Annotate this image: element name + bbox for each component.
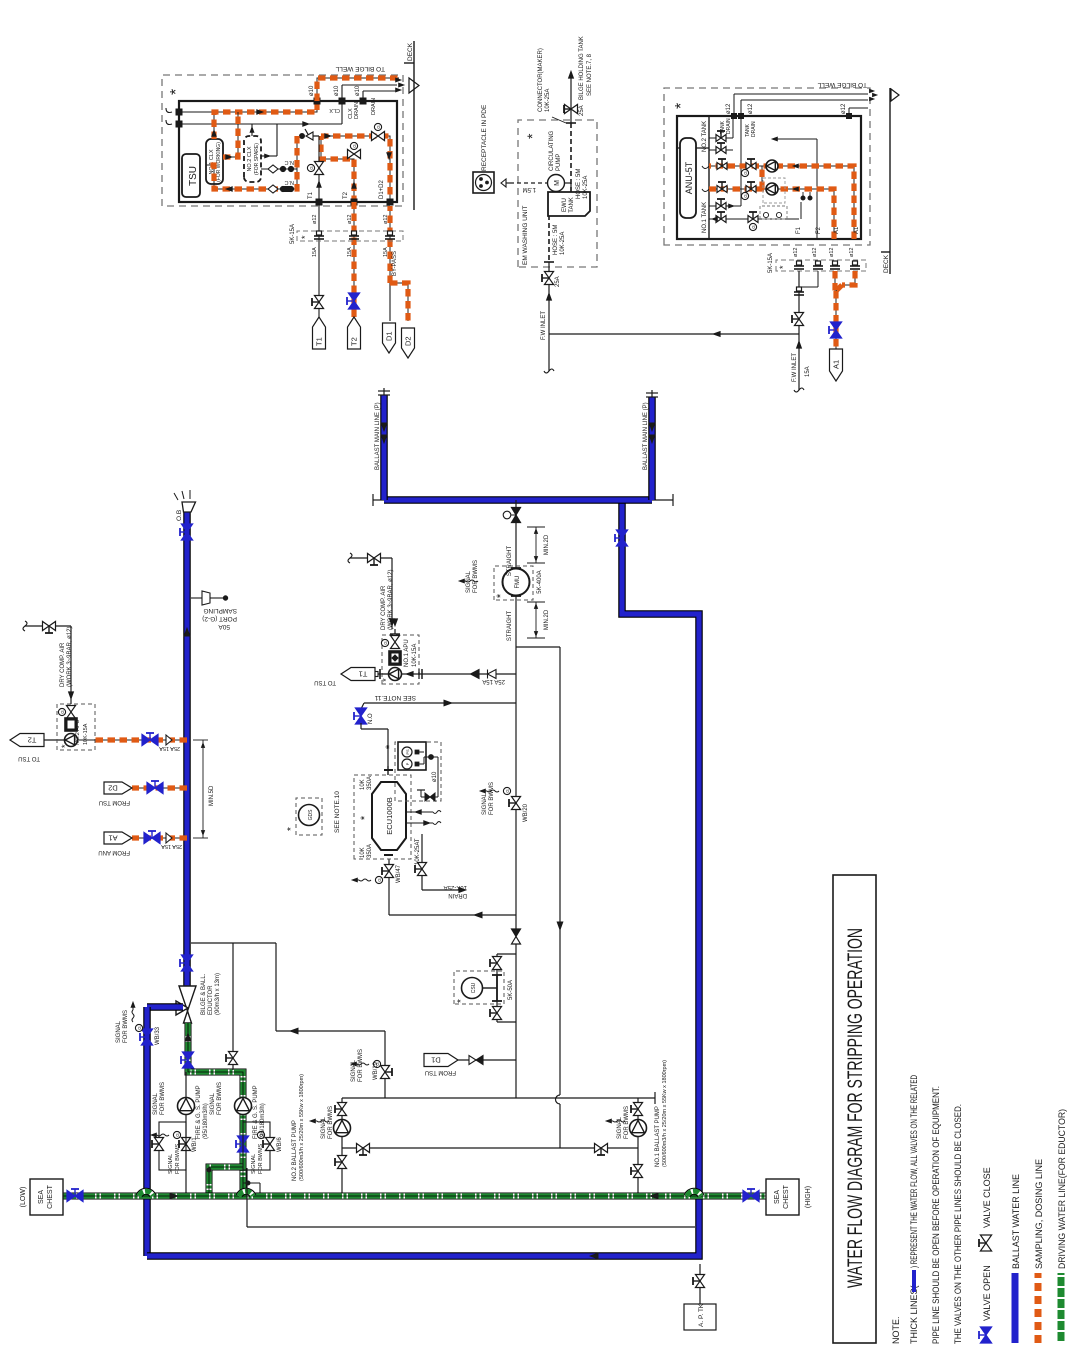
svg-text:BALLAST MAIN LINE (P): BALLAST MAIN LINE (P) [643,402,649,470]
wire branch line B [516,646,560,648]
EWU tank [548,192,590,216]
5K-15A flange box (TSU) [297,231,403,241]
svg-text:ø12: ø12 [347,215,353,224]
svg-text:FOR BWMS: FOR BWMS [217,1082,223,1115]
svg-text:25A 15A: 25A 15A [482,678,505,684]
svg-text:10K-25A: 10K-25A [560,232,566,255]
svg-text:CIRCULATING: CIRCULATING [549,130,555,171]
svg-text:10K-25AT: 10K-25AT [415,838,421,865]
svg-text:STRAIGHT: STRAIGHT [507,611,513,642]
F2 riser [816,139,818,239]
svg-text:NO.1 TANK: NO.1 TANK [702,202,708,233]
svg-text:(WORK.3~9BAR, ø12): (WORK.3~9BAR, ø12) [67,626,73,687]
svg-text:DRIVING WATER LINE(FOR EDUCTOR: DRIVING WATER LINE(FOR EDUCTOR) [1057,1109,1067,1269]
svg-text:TO TSU: TO TSU [18,755,40,761]
wire ballast main line P (lower) [648,397,656,500]
wire F.W horizontal to EWU [549,333,799,335]
flag T2 [348,317,361,349]
globe valve on loop [372,131,379,140]
svg-text:ECU1000B: ECU1000B [385,797,394,835]
svg-text:SEA: SEA [38,1190,45,1204]
CSU unit [454,971,504,1004]
deck line (ANU) [889,88,891,274]
fire pump no.2 (on driving line) [235,1098,252,1115]
svg-text:N.O: N.O [368,713,374,724]
valve WB/47 [384,871,393,878]
svg-text:15A: 15A [383,247,389,257]
svg-text:ø12: ø12 [841,103,847,114]
to bilge well funnel (TSU) [409,78,419,93]
drain headers to funnel [733,94,735,116]
svg-text:G: G [505,789,510,793]
wire A.P. tank line [699,1264,701,1304]
svg-text:T1: T1 [359,669,368,678]
wire manifold line 1 (y112) [179,111,214,113]
svg-text:MIN.2D: MIN.2D [544,609,550,630]
relief valve at T1 junction [305,129,319,136]
svg-text:NO.2 APU: NO.2 APU [75,720,81,745]
bottom edge connectors [316,199,323,206]
SEA CHEST (HIGH) [766,1179,799,1215]
F2 jog [817,271,819,287]
svg-text:A. P. TK: A. P. TK [698,1303,705,1327]
svg-text:WB/19: WB/19 [373,1061,379,1080]
svg-text:FIRE & G. S. PUMP: FIRE & G. S. PUMP [196,1085,202,1139]
svg-text:(90m3/h x 13m): (90m3/h x 13m) [215,973,221,1015]
svg-text:ø12: ø12 [849,248,855,257]
ECU1000B unit [354,775,411,859]
valve above eductor (open) [181,963,192,971]
check valve 25A/15A [471,670,480,679]
svg-text:15A: 15A [805,366,811,377]
svg-text:5K-15A: 5K-15A [768,253,774,273]
svg-text:P: P [405,762,410,765]
tank drain row NO.1 [709,205,741,207]
flange pair [418,669,420,679]
svg-text:(HIGH): (HIGH) [805,1186,812,1208]
svg-text:T1: T1 [308,191,314,199]
svg-text:ø12: ø12 [793,248,799,257]
svg-text:SAMPLING, DOSING LINE: SAMPLING, DOSING LINE [1034,1159,1044,1269]
flag T1 [313,317,326,349]
svg-text:G: G [743,171,748,175]
SEA CHEST (LOW) [30,1179,63,1215]
svg-text:10K-25A: 10K-25A [583,176,589,199]
top connectors (right edge) [731,113,737,119]
wire FMU branch [515,500,517,647]
svg-text:ø10: ø10 [432,771,438,782]
CSU bypass [497,953,516,955]
svg-text:DRAIN: DRAIN [371,98,377,115]
svg-text:D1: D1 [431,1055,441,1064]
svg-text:G: G [751,225,756,229]
svg-text:T1: T1 [315,337,324,346]
svg-text:SIGNAL: SIGNAL [168,1154,174,1174]
svg-text:ANU-5T: ANU-5T [684,161,694,194]
TSU inner box [179,101,397,202]
svg-text:SIGNAL: SIGNAL [321,1116,327,1139]
svg-text:(LOW): (LOW) [20,1187,27,1208]
valve WB/1 [181,1144,190,1151]
valve on O.B line (open) [181,532,192,540]
svg-text:10K-25A: 10K-25A [444,884,467,890]
svg-text:EM WASHING UNIT: EM WASHING UNIT [522,206,529,265]
svg-text:*: * [300,235,310,239]
svg-text:DRY COMP. AIR: DRY COMP. AIR [381,585,387,630]
svg-text:CHEST: CHEST [47,1184,54,1208]
svg-text:*: * [60,744,70,748]
svg-text:WB/20: WB/20 [523,803,529,822]
flag FROM TSU D1 [458,1059,516,1061]
wire pump2 jog to green main [209,1167,243,1196]
svg-text:WATER FLOW DIAGRAM FOR STRIPPI: WATER FLOW DIAGRAM FOR STRIPPING OPERATI… [844,928,867,1288]
svg-text:*: * [673,103,690,109]
wire valve line to green [232,943,234,1070]
svg-text:(95/180m3/h): (95/180m3/h) [203,1103,209,1139]
wire APU1 line [375,673,516,675]
svg-text:M: M [554,180,561,186]
valve cross conn (near no.2) [357,1143,364,1152]
svg-text:EDUCTOR: EDUCTOR [208,985,214,1015]
svg-text:50A: 50A [218,623,230,630]
svg-text:G: G [137,1026,142,1030]
flow arrow to T1 [406,671,413,676]
plug + cable [501,179,506,187]
svg-text:1.5M: 1.5M [523,186,536,192]
check valve on D1 line [469,1056,476,1065]
svg-text:(WORK.3~9BAR, ø12): (WORK.3~9BAR, ø12) [388,569,394,630]
svg-text:CONNECTOR(MAKER): CONNECTOR(MAKER) [538,48,544,112]
svg-text:SEE NOTE.7, 8: SEE NOTE.7, 8 [587,53,593,96]
svg-text:NO.2 BALLAST PUMP: NO.2 BALLAST PUMP [292,1120,298,1181]
svg-text:FOR BWMS: FOR BWMS [473,560,479,593]
legend driving water line [1058,1273,1065,1343]
svg-text:G: G [175,1133,180,1137]
orange loop: T1 junction to D connector [321,136,390,203]
svg-text:15A: 15A [347,247,353,257]
svg-text:THE VALVES ON THE OTHER PIPE L: THE VALVES ON THE OTHER PIPE LINES SHOUL… [953,1104,963,1344]
svg-text:ø12: ø12 [748,103,754,114]
svg-text:NO.1 APU: NO.1 APU [404,639,410,667]
5K-15A flange box (ANU) [776,260,866,271]
flow arrow driving line [185,1033,191,1041]
svg-text:DRAIN: DRAIN [726,118,732,134]
EWU dashed box [518,120,597,267]
NO.2 APU unit [57,704,95,750]
svg-text:A1: A1 [832,360,841,369]
svg-text:ø10: ø10 [309,85,315,96]
svg-text:A1: A1 [108,833,117,842]
svg-text:5K-50A: 5K-50A [508,980,514,1000]
svg-text:*: * [359,815,371,820]
valves in ANU rows [717,163,722,170]
hose to holding tank connector [570,123,572,192]
svg-text:D1+D2: D1+D2 [379,179,385,199]
svg-text:(95/180m3/h): (95/180m3/h) [260,1103,266,1139]
orange A1 merge [834,271,836,291]
svg-text:EWU: EWU [562,198,568,212]
svg-text:WB/6: WB/6 [277,1137,283,1152]
svg-text:PIPE LINE SHOULD BE OPEN BEFOR: PIPE LINE SHOULD BE OPEN BEFORE OPERATIO… [931,1086,941,1344]
svg-text:ø12: ø12 [812,248,818,257]
connectors on right edge [314,98,321,105]
svg-text:) REPRESENT THE WATER FLOW, AL: ) REPRESENT THE WATER FLOW, ALL VALVES O… [909,1075,919,1268]
svg-text:TO TSU: TO TSU [314,679,336,685]
svg-text:10K: 10K [360,779,366,790]
svg-text:SIGNAL: SIGNAL [466,570,472,593]
svg-text:*: * [778,265,788,269]
svg-text:SEE NOTE.11: SEE NOTE.11 [374,694,416,701]
svg-text:350A: 350A [367,776,373,790]
valve sea chest low (open) [67,1190,75,1201]
svg-text:25A 15A: 25A 15A [159,745,180,751]
junction dots [207,1168,211,1172]
hooks into tanks [702,166,709,169]
svg-text:THICK LINES(: THICK LINES( [909,1285,919,1344]
valve on driving line (open) [182,1060,193,1068]
svg-text:G: G [60,710,65,714]
svg-text:T2: T2 [343,191,349,199]
svg-text:PORT (G-2): PORT (G-2) [202,615,237,622]
T1 riser (black) [318,136,320,203]
hose connectors on top edge [176,121,183,128]
svg-text:FROM TSU: FROM TSU [99,799,130,805]
valve near main (actuated) [512,515,521,523]
svg-text:*: * [524,133,540,139]
flag D2 [402,328,415,358]
svg-text:PUMP: PUMP [556,154,562,171]
valve WB/33 [141,1037,152,1045]
svg-text:DRAIN: DRAIN [354,102,360,119]
valve WB/20 [511,803,520,810]
svg-text:NO.2 TANK: NO.2 TANK [702,121,708,152]
svg-text:FIRE & G. S. PUMP: FIRE & G. S. PUMP [253,1085,259,1139]
svg-text:5K-15A: 5K-15A [290,224,296,244]
svg-text:A1: A1 [854,226,860,234]
svg-text:DRAIN: DRAIN [448,892,467,898]
svg-text:VALVE OPEN: VALVE OPEN [982,1265,992,1321]
F.W inlet (EWU) [548,262,550,334]
wire WB/19 line [384,1031,386,1098]
svg-text:O.B: O.B [176,510,183,521]
svg-text:5K-400A: 5K-400A [537,570,543,593]
valve (closed, filled) [512,937,521,945]
valve sea chest high (open) [743,1190,751,1201]
svg-text:FROM ANU: FROM ANU [98,849,130,855]
svg-text:BY-PASS: BY-PASS [392,251,398,276]
legend valve open [980,1335,991,1343]
sampling port (G-2) 50A [191,597,202,599]
svg-text:GDS: GDS [308,809,314,821]
valve T2 (open) [348,301,359,309]
svg-text:ø12: ø12 [312,215,318,224]
D1/D2 split [389,283,391,321]
wire D2 tap (sampling line) [132,787,187,789]
svg-text:TANK: TANK [569,197,575,213]
circulating pump M [548,175,565,192]
wire manifold line 2 (y124) [179,123,342,125]
svg-text:N.C: N.C [285,179,295,185]
TSU outer dashed box [162,75,403,206]
wire see-note-11 line [364,702,516,704]
svg-text:G: G [743,194,748,198]
svg-text:ø10: ø10 [355,85,361,96]
flow arrows green main [170,1193,178,1199]
svg-text:FOR BWMS: FOR BWMS [358,1049,364,1082]
flag D1 [383,323,396,353]
svg-text:SIGNAL: SIGNAL [116,1020,122,1043]
flow meter FMU [494,566,533,600]
svg-text:SEE NOTE.10: SEE NOTE.10 [334,791,341,833]
receptacle socket [473,172,494,193]
svg-text:10K-25A: 10K-25A [545,89,551,112]
valve T1 (closed) [314,302,323,309]
bilge funnel (ANU) [891,89,899,101]
cross connection line [342,1147,638,1149]
svg-text:FOR BWMS: FOR BWMS [328,1106,334,1139]
orange: CLX1 top to drain connector [214,101,317,139]
sensor pair [800,202,802,219]
overboard symbol O.B [182,502,196,512]
svg-text:ø12: ø12 [829,248,835,257]
svg-text:TO BILGE WELL: TO BILGE WELL [817,81,867,88]
svg-text:A1: A1 [834,226,840,234]
svg-text:D1: D1 [385,331,394,341]
svg-text:STRAIGHT: STRAIGHT [507,546,513,577]
fire pump no.1 [185,1114,187,1196]
hose to F.W valve [548,216,550,260]
TSU label box [182,154,200,197]
dimension MIN.2D (left) [527,637,545,639]
ECU pressure sensors [395,742,441,801]
wire eductor driving water line [188,1023,243,1196]
jump arcs on green main [139,1191,153,1196]
svg-text:ø10: ø10 [334,85,340,96]
svg-text:DRAIN: DRAIN [751,121,757,137]
svg-text:25A: 25A [579,105,585,116]
NO.1 CLX box [206,139,223,184]
svg-text:*: * [384,744,396,749]
dry comp air supply (APU2) [70,626,72,704]
svg-text:10K-15A: 10K-15A [83,723,89,745]
svg-text:(500/600m3/h x 25/20m x 55Kw x: (500/600m3/h x 25/20m x 55Kw x 1800rpm) [662,1060,668,1167]
ANU tank partition [708,116,710,239]
orange: T2 riser [321,136,354,203]
svg-text:VALVE CLOSE: VALVE CLOSE [982,1167,992,1228]
svg-text:TO BILGE WELL: TO BILGE WELL [335,65,385,72]
valve WB/19 [380,1072,389,1079]
svg-text:RECEPTACLE IN PDE: RECEPTACLE IN PDE [481,104,488,171]
pump2 bypass [243,1122,270,1170]
deck line (TSU) [413,41,415,210]
wire green main suction line [63,1193,766,1200]
svg-text:SIGNAL: SIGNAL [617,1116,623,1139]
bilge holding tank line [570,74,572,123]
diamond + N.C valve on return [268,185,278,193]
svg-text:BALLAST WATER LINE: BALLAST WATER LINE [1011,1174,1021,1269]
NO.2 ballast pump [341,1137,343,1196]
svg-text:WB/33: WB/33 [155,1026,161,1045]
lines to T1/T2/D flags [318,202,320,317]
svg-text:BILGE HOLDING TANK: BILGE HOLDING TANK [579,36,585,100]
wire ballast cross main [384,496,652,504]
svg-text:SIGNAL: SIGNAL [351,1059,357,1082]
svg-text:T2: T2 [350,337,359,346]
legend ballast water line [1012,1273,1019,1343]
orange: left return loop [206,136,297,189]
legend sampling dosing line [1035,1273,1042,1343]
svg-text:SAMPLING: SAMPLING [203,607,237,614]
dry comp air supply (APU1) [391,558,393,629]
svg-text:WB/47: WB/47 [396,864,402,883]
valve + strainer on T2 tap (open) [142,734,150,745]
dimension MIN.2D (right) [527,562,545,564]
svg-text:NO.2 CLX: NO.2 CLX [247,146,253,171]
svg-text:CHEST: CHEST [783,1184,790,1208]
flow arrow bottom leg [590,1253,598,1259]
svg-text:FOR BWMS: FOR BWMS [175,1143,181,1174]
orange: CLX1 side port [223,112,238,157]
svg-text:SIGNAL: SIGNAL [482,792,488,815]
svg-text:G: G [352,144,357,148]
drain manifold beyond box [317,78,399,101]
wire eductor suction leg [147,1003,183,1011]
bilge & ballast eductor [179,986,196,1011]
svg-text:FOR BWMS: FOR BWMS [624,1106,630,1139]
svg-text:FOR BWMS: FOR BWMS [160,1082,166,1115]
svg-text:F2: F2 [816,226,822,234]
flange + arrow below APU [379,669,381,679]
svg-text:CSU: CSU [471,982,477,993]
tank drain rows NO.2 [709,137,733,139]
svg-text:(FOR WORKING): (FOR WORKING) [216,142,222,182]
svg-text:(500/600m3/h x 25/20m x 55Kw x: (500/600m3/h x 25/20m x 55Kw x 1800rpm) [299,1074,305,1181]
wire ballast bottom leg [147,500,699,1256]
svg-text:10K-15A: 10K-15A [412,644,418,667]
svg-text:ø12: ø12 [726,103,732,114]
ANU outer dashed box [664,88,870,245]
svg-text:25A 15A: 25A 15A [161,843,182,849]
wire ballast main line P (upper) [380,395,388,500]
svg-text:CLX: CLX [329,107,340,113]
svg-text:FROM TSU: FROM TSU [425,1069,456,1075]
svg-text:FOR BWMS: FOR BWMS [123,1010,129,1043]
svg-text:NO.1 BALLAST PUMP: NO.1 BALLAST PUMP [655,1106,661,1167]
svg-text:F.W INLET: F.W INLET [541,311,547,340]
svg-text:25A: 25A [555,276,561,287]
svg-text:G: G [377,878,382,882]
wire FMU to pump header [515,647,517,1098]
gray dashed aux box [763,178,785,203]
svg-text:350A: 350A [367,844,373,858]
svg-text:10K: 10K [360,847,366,858]
svg-text:15A: 15A [312,247,318,257]
A.P. TK box [684,1304,716,1330]
svg-text:SEA: SEA [774,1190,781,1204]
valve on drop leg (open) [616,538,627,546]
svg-text:(FOR SPARE): (FOR SPARE) [254,143,260,175]
svg-text:MIN.5D: MIN.5D [209,785,215,806]
svg-text:HOSE : 5M: HOSE : 5M [553,225,559,255]
svg-text:NOTE.: NOTE. [891,1316,901,1344]
orange pump row A1-b [709,166,854,239]
svg-text:N.C: N.C [285,159,295,165]
aux sensor box low [760,206,787,219]
svg-text:BILGE & BALL.: BILGE & BALL. [201,973,207,1015]
N.C line from CLX2 [261,168,297,170]
legend valve close [980,1243,991,1251]
MIN.5D dimension [193,837,208,839]
